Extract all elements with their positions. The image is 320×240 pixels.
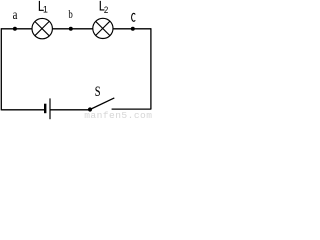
svg-text:S: S (95, 84, 101, 100)
svg-text:2: 2 (104, 5, 108, 16)
svg-text:b: b (68, 9, 73, 21)
svg-text:1: 1 (43, 5, 48, 15)
svg-text:manfen5.com: manfen5.com (84, 110, 152, 120)
svg-text:a: a (13, 8, 18, 23)
